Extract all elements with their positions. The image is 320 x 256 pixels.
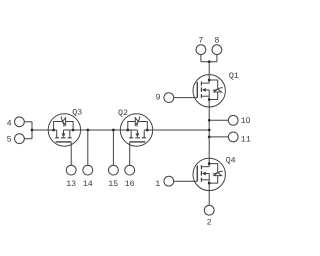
Q4 drain lead [208,158,210,167]
svg-text:8: 8 [214,37,219,46]
svg-text:11: 11 [241,135,251,144]
svg-text:7: 7 [198,37,203,46]
wire Q4 source to pin 2 [208,191,210,206]
Q4 source junction dot [208,182,211,185]
transistor Q3 [48,114,80,166]
svg-text:14: 14 [83,180,93,189]
Q3 gate lead [70,142,72,166]
wire pins 4-5 join [31,122,33,139]
Q2 gate lead [129,142,131,166]
svg-text:16: 16 [125,180,135,189]
Q3 source junction dot [72,129,75,132]
pin 14 terminal [83,165,93,175]
wire to pin 15 [112,130,114,165]
pin 11 terminal [228,132,238,142]
svg-text:Q2: Q2 [118,109,128,118]
Q3 drain lead [48,129,57,131]
pin 7 terminal [196,45,206,55]
Q4 channel segments [200,165,202,182]
wire to pin 11 [209,136,228,138]
transistor Q1 [174,75,226,107]
Q4 body diode [209,164,218,184]
wire to Q3 drain [32,129,48,131]
Q4 source lead [208,174,210,191]
wire pin 7 stem [200,55,202,62]
Q2 source lead [120,129,137,131]
svg-text:4: 4 [7,119,12,128]
Q4 body circle [193,158,225,190]
Q4 source stub [201,179,209,181]
node rail junction [208,129,211,132]
Q1 drain junction dot [208,79,211,82]
Q1 body diode [209,80,218,100]
wire pins 7-8 bus [201,61,217,63]
transistor Q4 [174,158,226,190]
wire to pin 10 [209,119,228,121]
svg-text:Q3: Q3 [72,108,82,117]
Q1 channel segments [200,82,202,99]
Q2 source junction dot [126,129,129,132]
svg-text:2: 2 [207,218,212,227]
Q1 source junction dot [208,98,211,101]
wire bus to Q1 drain [208,62,210,75]
Q3 body circle [48,114,80,146]
Q2 substrate arrow [136,133,140,137]
wire pin 8 stem [216,55,218,62]
pin 16 terminal [125,165,135,175]
Q3 channel segments [55,137,72,139]
Q2 gate bar [130,141,146,143]
node pin 11 tap [208,136,211,139]
Q1 source lead [208,90,210,107]
svg-text:13: 13 [66,180,76,189]
wire Q2 drain to output net [153,129,210,131]
Q3 gate bar [56,141,72,143]
wire pin 4 stem [24,121,32,123]
Q3 substrate arrow [62,133,66,137]
pin 13 terminal [66,165,76,175]
pin 2 terminal [204,205,214,215]
wire to pin 14 [87,130,89,165]
pin 9 terminal [164,93,174,103]
Q2 source stub [130,130,132,138]
svg-text:5: 5 [7,135,12,144]
node pin 10 tap [208,119,211,122]
svg-text:Q4: Q4 [226,157,236,166]
pin 1 terminal [164,176,174,186]
Q2 body circle [120,114,152,146]
Q4 drain stub [201,166,209,168]
pin 15 terminal [109,165,119,175]
Q3 source stub [69,130,71,138]
Q1 body circle [193,75,225,107]
transistor Q2 [120,114,152,166]
pin 10 terminal [228,115,238,125]
Q3 drain stub [56,130,58,138]
Q1 substrate arrow [202,88,206,92]
svg-text:9: 9 [156,94,161,103]
Q4 drain junction dot [208,162,211,165]
svg-text:Q1: Q1 [229,72,239,81]
wire Q3 source to Q2 source [81,129,121,131]
Q1 drain lead [208,75,210,84]
Q3 source lead [64,129,81,131]
Q1 gate lead [174,97,198,99]
pin 5 terminal [15,134,25,144]
node pins 4-5 junction [31,129,34,132]
Q4 gate lead [174,180,198,182]
Q3 body diode [54,122,73,131]
Q1 gate bar [196,82,198,98]
Q2 drain lead [144,129,153,131]
node pins 7-8 junction [208,60,211,63]
Q2 drain stub [143,130,145,138]
Q3 drain junction dot [52,129,55,132]
pin 4 terminal [15,117,25,127]
Q2 body diode [128,122,148,131]
Q4 gate bar [196,166,198,182]
Q2 channel segments [129,137,146,139]
pin 8 terminal [212,45,222,55]
svg-text:1: 1 [155,180,160,189]
svg-text:15: 15 [108,180,118,189]
Q4 substrate arrow [202,172,206,176]
Q2 drain junction dot [146,129,149,132]
node pin 15 tap [112,129,115,132]
svg-text:10: 10 [241,115,251,126]
Q1 source stub [201,95,209,97]
Q1 drain stub [201,82,209,84]
wire Q1 source to Q4 drain [208,107,210,158]
node pin 14 tap [86,129,89,132]
wire pin 5 stem [24,138,32,140]
